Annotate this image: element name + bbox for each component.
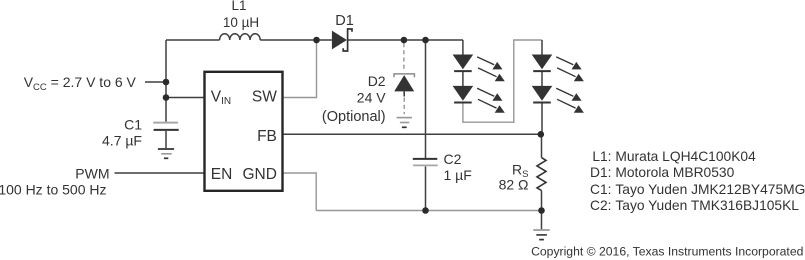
- svg-text:4.7 µF: 4.7 µF: [102, 132, 142, 148]
- svg-text:Motorola MBR0530: Motorola MBR0530: [615, 165, 734, 180]
- svg-text:C2: C2: [444, 151, 462, 167]
- svg-text:Tayo Yuden JMK212BY475MG: Tayo Yuden JMK212BY475MG: [615, 182, 805, 197]
- svg-text:Tayo Yuden TMK316BJ105KL: Tayo Yuden TMK316BJ105KL: [615, 198, 799, 213]
- svg-text:D1: D1: [335, 13, 354, 29]
- svg-text:D1:: D1:: [590, 165, 611, 180]
- svg-text:D2: D2: [368, 73, 386, 89]
- svg-text:10 µH: 10 µH: [223, 15, 259, 30]
- svg-text:C2:: C2:: [590, 198, 611, 213]
- svg-text:(Optional): (Optional): [322, 109, 386, 125]
- svg-text:Copyright © 2016, Texas Instru: Copyright © 2016, Texas Instruments Inco…: [531, 245, 803, 259]
- svg-text:GND: GND: [242, 166, 276, 183]
- svg-text:L1: L1: [231, 0, 246, 13]
- svg-text:EN: EN: [211, 166, 233, 183]
- svg-text:FB: FB: [257, 128, 277, 145]
- svg-text:PWM: PWM: [75, 166, 109, 182]
- svg-text:Murata LQH4C100K04: Murata LQH4C100K04: [615, 149, 756, 164]
- svg-text:24 V: 24 V: [357, 89, 386, 105]
- svg-text:82 Ω: 82 Ω: [499, 177, 529, 193]
- svg-text:1 µF: 1 µF: [444, 167, 472, 183]
- svg-text:C1: C1: [124, 116, 142, 132]
- svg-text:C1:: C1:: [590, 182, 611, 197]
- svg-text:L1:: L1:: [592, 149, 611, 164]
- svg-text:100 Hz to 500 Hz: 100 Hz to 500 Hz: [0, 182, 107, 198]
- svg-text:SW: SW: [252, 89, 277, 106]
